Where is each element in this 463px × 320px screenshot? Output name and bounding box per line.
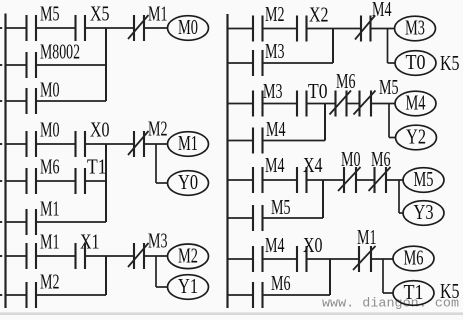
svg-text:M1: M1 [148,2,168,26]
svg-text:K5: K5 [440,279,460,303]
svg-text:M3: M3 [263,79,283,103]
svg-text:M6: M6 [404,246,424,270]
svg-text:X0: X0 [303,233,323,257]
svg-text:M2: M2 [178,244,198,268]
svg-text:M2: M2 [148,117,168,141]
svg-text:Y0: Y0 [178,170,198,194]
svg-text:M6: M6 [40,155,60,179]
svg-text:M5: M5 [40,2,60,26]
svg-text:M1: M1 [178,131,198,155]
svg-text:M1: M1 [40,197,60,221]
svg-text:T0: T0 [308,79,328,103]
svg-text:M5: M5 [414,167,434,191]
svg-text:X5: X5 [90,2,110,26]
svg-text:Y2: Y2 [406,125,426,149]
svg-text:Y1: Y1 [178,274,198,298]
svg-text:M2: M2 [265,2,285,26]
svg-text:T1: T1 [87,155,107,179]
svg-text:M4: M4 [266,117,286,141]
svg-text:M0: M0 [178,15,198,39]
svg-text:X1: X1 [80,230,100,254]
svg-text:M0: M0 [341,147,361,171]
svg-text:X2: X2 [309,3,329,27]
svg-text:M4: M4 [372,0,392,21]
svg-text:M4: M4 [265,153,285,177]
svg-text:M0: M0 [40,118,60,142]
svg-text:M0: M0 [40,78,60,102]
svg-text:M1: M1 [40,230,60,254]
svg-text:M3: M3 [148,229,168,253]
svg-text:T0: T0 [406,50,426,74]
svg-text:M5: M5 [271,195,291,219]
svg-text:M5: M5 [379,75,399,99]
svg-text:M4: M4 [265,233,285,257]
svg-text:M8002: M8002 [40,40,80,64]
svg-text:M3: M3 [265,39,285,63]
svg-text:T1: T1 [404,280,424,304]
svg-text:X4: X4 [303,153,323,177]
svg-text:www. diangon. com: www. diangon. com [322,296,459,311]
svg-text:M6: M6 [336,69,356,93]
svg-text:M3: M3 [405,16,425,40]
svg-text:Y3: Y3 [414,200,434,224]
svg-text:M1: M1 [357,225,377,249]
svg-text:X0: X0 [90,118,110,142]
svg-text:M2: M2 [40,270,60,294]
svg-text:M6: M6 [271,271,291,295]
svg-text:M6: M6 [371,147,391,171]
svg-text:K5: K5 [440,51,460,75]
svg-text:M4: M4 [406,91,426,115]
